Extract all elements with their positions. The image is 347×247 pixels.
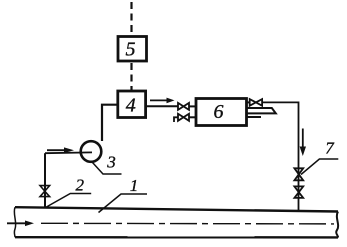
svg-text:5: 5 xyxy=(126,38,136,60)
valve lower with vent elbow xyxy=(174,114,196,122)
leader and label 7 xyxy=(301,139,338,175)
leader and label 1 xyxy=(99,176,148,213)
pipe flow arrow xyxy=(7,221,34,227)
wire outlet to right and down xyxy=(262,102,298,211)
leader and label 3 xyxy=(93,153,122,174)
probe tube on right of 6 xyxy=(247,108,276,113)
valve 7 upper xyxy=(294,168,303,180)
dashed signal line 5-4 xyxy=(130,63,132,91)
pipe left break xyxy=(14,207,15,237)
wire branch to circle3 xyxy=(45,151,92,154)
valve outlet (top right of 6) xyxy=(247,99,263,106)
svg-text:6: 6 xyxy=(214,101,224,123)
svg-text:3: 3 xyxy=(106,153,116,172)
valve 7 lower xyxy=(294,186,303,198)
pipe centerline xyxy=(41,222,334,225)
valve upper (inlet of 6) xyxy=(178,103,196,110)
block 5 xyxy=(118,37,147,62)
wire box4 to valve xyxy=(146,105,178,107)
leader and label 2 xyxy=(46,176,92,208)
svg-text:1: 1 xyxy=(130,176,139,195)
flow arrow down xyxy=(300,129,306,157)
dashed signal line (top) xyxy=(130,2,132,36)
wire box4 to circle3 xyxy=(102,105,118,141)
pipe 1 top wall xyxy=(15,207,338,211)
svg-text:4: 4 xyxy=(126,95,136,117)
flow arrow to circle3 xyxy=(47,147,74,153)
svg-text:2: 2 xyxy=(76,176,85,195)
flow arrow box4 to valve xyxy=(150,98,175,104)
block 4 xyxy=(118,91,146,118)
pipe right break xyxy=(336,212,338,238)
sampling device 3 (circle) xyxy=(81,141,102,162)
svg-text:7: 7 xyxy=(325,139,335,158)
block 6 xyxy=(196,99,247,126)
wire branch vertical xyxy=(44,153,46,208)
valve 2 xyxy=(40,186,50,197)
pipe 1 bottom wall xyxy=(15,236,338,239)
probe support line xyxy=(247,116,262,118)
